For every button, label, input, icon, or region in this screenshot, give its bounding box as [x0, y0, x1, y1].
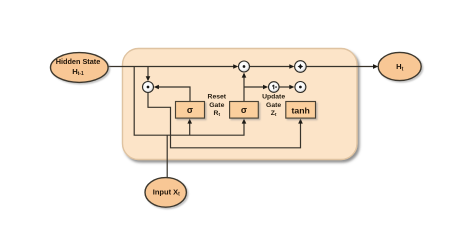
- wire: multiply node A output down, right along lower bus, up into tanh: [148, 93, 303, 148]
- svg-text:Hidden State: Hidden State: [56, 57, 101, 66]
- node: Hidden State Ht-1 ellipse: [51, 53, 109, 83]
- op node A: elementwise multiply (reset): [143, 82, 154, 93]
- wire: bottom bus branch up into reset gate sigma: [187, 119, 192, 136]
- wire: branch from main line down into multiply node A: [146, 67, 151, 82]
- op node D: elementwise multiply (candidate): [295, 82, 306, 93]
- svg-text:σ: σ: [241, 105, 247, 115]
- label: Reset Gate Rt: [208, 93, 227, 117]
- gate box: tanh: [286, 102, 316, 119]
- wire: 1-minus node C to multiply node D: [279, 85, 294, 90]
- svg-text:Reset: Reset: [208, 93, 227, 100]
- wire: reset sigma output up then left into multiply node A: [154, 85, 190, 102]
- wire: branch from main line down at x=134 to bottom bus, then up into update gate sigma: [134, 67, 246, 136]
- gate box: update sigma: [230, 102, 259, 119]
- svg-text:Gate: Gate: [266, 102, 281, 109]
- node: Input Xt ellipse: [145, 178, 186, 208]
- wire: branch from update line right into 1-minus node C: [244, 85, 268, 90]
- op node C: one-minus: [269, 82, 280, 93]
- wire: update sigma output up into multiply node B: [242, 73, 247, 102]
- gate box: reset sigma: [176, 102, 205, 119]
- svg-text:Input Xt: Input Xt: [153, 188, 180, 198]
- wire: node B to add node E: [250, 64, 295, 69]
- svg-text:tanh: tanh: [292, 105, 310, 115]
- op node B: elementwise multiply (update x hidden): [239, 61, 250, 72]
- label: Update Gate Zt: [262, 93, 285, 117]
- GRU cell body (rounded container): [123, 49, 358, 160]
- svg-text:Gate: Gate: [209, 102, 224, 109]
- svg-text:Update: Update: [262, 93, 285, 100]
- wire: Input Xt up to bottom bus: [166, 135, 168, 178]
- svg-text:σ: σ: [187, 105, 193, 115]
- node: output Ht ellipse: [378, 52, 421, 80]
- wire: Hidden State to multiply node B (main horizontal): [108, 64, 239, 69]
- wire: add node E to output Ht: [306, 64, 378, 69]
- op node E: add: [295, 61, 307, 73]
